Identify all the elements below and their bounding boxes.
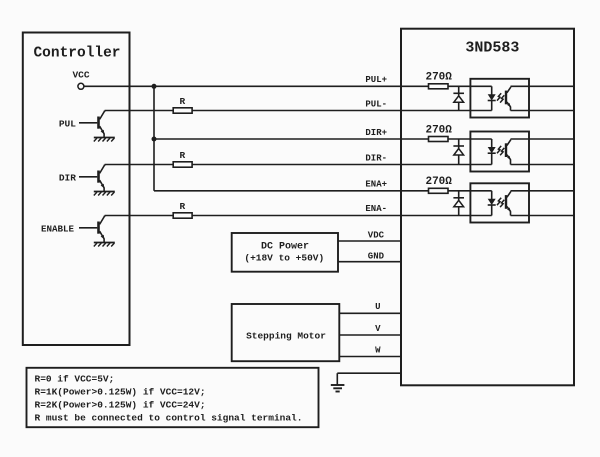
stepping motor box: [232, 304, 340, 361]
svg-text:270Ω: 270Ω: [425, 72, 452, 84]
wire opto emitter out group 2 (DIR): [511, 164, 575, 166]
opto light arrows group 2 (DIR): [497, 146, 501, 153]
wire GND: [338, 261, 401, 263]
resistor 270ohm group 1 (PUL): [429, 84, 449, 89]
op-to-coupler box U3 (ENA): [470, 183, 529, 222]
resistor 270ohm group 2 (DIR): [429, 137, 449, 142]
wire R1 to opto LED: [192, 110, 492, 112]
junction at DIR+: [152, 137, 157, 142]
transistor Q3 (ENABLE): [79, 227, 97, 229]
ground (earth) under Q2 (DIR): [94, 191, 115, 193]
wire 270ohm to LED group 1 (PUL): [448, 85, 492, 87]
resistor 270ohm group 3 (ENA): [429, 188, 449, 193]
wire VDC: [338, 240, 401, 242]
wire opto collector out group 3 (ENA): [511, 190, 575, 192]
driver box 3ND583: [401, 29, 574, 386]
resistor R3: [173, 213, 192, 218]
op-to-coupler box U1 (PUL): [470, 79, 529, 118]
svg-text:Stepping Motor: Stepping Motor: [246, 331, 326, 342]
svg-text:DIR-: DIR-: [365, 153, 387, 163]
svg-text:W: W: [375, 345, 381, 355]
junction VCC drop: [152, 84, 157, 89]
op-to-coupler box U2 (DIR): [470, 132, 529, 172]
svg-text:DC Power: DC Power: [261, 241, 309, 252]
opto light arrows group 1 (PUL): [497, 93, 501, 100]
svg-text:R: R: [180, 96, 186, 107]
wire VCC vertical drop: [153, 86, 155, 191]
wire opto emitter out group 3 (ENA): [511, 215, 575, 217]
svg-text:PUL-: PUL-: [365, 99, 387, 109]
svg-text:R: R: [180, 150, 186, 161]
svg-text:GND: GND: [368, 251, 385, 261]
opto light arrows group 3 (ENA): [497, 198, 501, 205]
opto LED group 3 (ENA): [491, 191, 493, 199]
wire opto collector out group 1 (PUL): [511, 85, 575, 87]
wire R3 to opto LED: [192, 215, 492, 217]
wire opto emitter out group 1 (PUL): [511, 110, 575, 112]
opto phototransistor group 2 (DIR): [505, 143, 507, 157]
svg-text:270Ω: 270Ω: [425, 176, 452, 188]
svg-text:R: R: [180, 201, 186, 212]
wire DIR+ line: [154, 138, 429, 140]
svg-text:VCC: VCC: [72, 69, 89, 80]
wire collector to R3: [105, 215, 174, 217]
wire ENA+ line: [154, 190, 429, 192]
ground (earth) under Q3 (ENABLE): [94, 242, 115, 244]
wire driver ground: [337, 372, 401, 374]
svg-text:(+18V to +50V): (+18V to +50V): [244, 253, 324, 264]
svg-text:U: U: [375, 302, 380, 312]
opto phototransistor group 3 (ENA): [505, 195, 507, 209]
opto LED group 2 (DIR): [491, 139, 493, 147]
transistor Q1 (PUL): [79, 122, 97, 124]
svg-text:ENA-: ENA-: [365, 204, 387, 214]
wire collector to R2: [105, 164, 174, 166]
resistor R2: [173, 162, 192, 167]
wire W: [339, 356, 401, 358]
ground symbol: [336, 373, 338, 385]
svg-text:R=1K(Power>0.125W) if VCC=12V;: R=1K(Power>0.125W) if VCC=12V;: [35, 386, 206, 397]
svg-text:PUL+: PUL+: [365, 75, 387, 85]
svg-text:270Ω: 270Ω: [425, 124, 452, 136]
svg-text:DIR+: DIR+: [365, 128, 387, 138]
wire opto collector out group 2 (DIR): [511, 138, 575, 140]
resistor R1: [173, 108, 192, 113]
svg-text:Controller: Controller: [33, 45, 120, 61]
wire collector to R1: [105, 110, 174, 112]
svg-text:ENA+: ENA+: [365, 179, 387, 189]
dc power box: [232, 233, 338, 272]
diode D3 (ENA): [458, 191, 460, 200]
svg-text:PUL: PUL: [59, 118, 76, 129]
transistor Q2 (DIR): [79, 176, 97, 178]
diode D2 (DIR): [458, 139, 460, 148]
wire 270ohm to LED group 3 (ENA): [448, 190, 492, 192]
wire R2 to opto LED: [192, 164, 492, 166]
controller box: [23, 33, 130, 346]
note box: [27, 368, 319, 427]
terminal VCC open circle: [78, 83, 84, 89]
svg-text:R=0 if VCC=5V;: R=0 if VCC=5V;: [35, 373, 115, 384]
opto phototransistor group 1 (PUL): [505, 91, 507, 105]
diode D1 (PUL): [458, 86, 460, 95]
svg-text:DIR: DIR: [59, 172, 76, 183]
wire V: [339, 334, 401, 336]
wire 270ohm to LED group 2 (DIR): [448, 138, 492, 140]
svg-text:3ND583: 3ND583: [465, 40, 519, 57]
svg-text:V: V: [375, 324, 381, 334]
wire U: [339, 312, 401, 314]
svg-text:R must be connected to control: R must be connected to control signal te…: [35, 413, 303, 424]
ground (earth) under Q1 (PUL): [94, 137, 115, 139]
svg-text:R=2K(Power>0.125W) if VCC=24V;: R=2K(Power>0.125W) if VCC=24V;: [35, 400, 206, 411]
svg-text:VDC: VDC: [368, 231, 385, 241]
svg-text:ENABLE: ENABLE: [41, 223, 75, 234]
wire VCC to PUL+ line: [84, 85, 429, 87]
opto LED group 1 (PUL): [491, 86, 493, 94]
